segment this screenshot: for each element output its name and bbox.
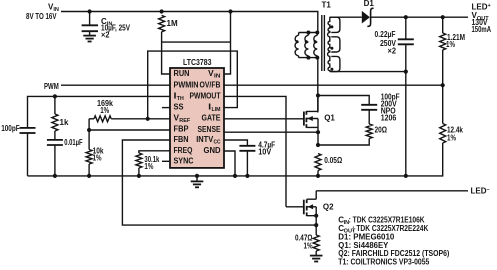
wire PWM to PWMIN [61, 84, 170, 86]
transistor Q2 [303, 200, 305, 215]
transformer T1 primary phase dots [296, 40, 299, 43]
wire ground rail [28, 147, 443, 176]
wire 1M to RUN [162, 32, 170, 74]
wire RUN/VIN link [162, 41, 231, 43]
svg-text:×2: ×2 [388, 46, 397, 55]
resistor R 10k [88, 130, 90, 150]
svg-text:20Ω: 20Ω [375, 125, 388, 134]
svg-text:1M: 1M [167, 19, 178, 28]
svg-text:10V: 10V [258, 148, 272, 157]
svg-text:IN: IN [214, 74, 221, 80]
svg-text:0.01µF: 0.01µF [64, 138, 82, 147]
svg-text:1%: 1% [100, 106, 109, 115]
wire SS stub [162, 107, 170, 109]
resistor R 0.05Ω [315, 154, 321, 171]
resistor R 1M [159, 15, 165, 31]
wire GATE to Q1 [224, 118, 304, 120]
wire FBN to Q2 source sense [122, 140, 316, 225]
svg-text:D1: D1 [364, 0, 375, 8]
svg-text:FREQ: FREQ [174, 146, 193, 155]
svg-text:100pF: 100pF [1, 124, 20, 133]
svg-text:1206: 1206 [381, 113, 397, 122]
svg-text:SS: SS [174, 103, 185, 112]
IC U1 LTC3783 [170, 68, 224, 168]
svg-text:1%: 1% [93, 153, 102, 162]
wire FREQ [139, 151, 170, 153]
node VOUT junction COUT [404, 15, 408, 19]
resistor R 1k [54, 96, 56, 114]
svg-text:INTV: INTV [196, 135, 214, 144]
wire VIN rail to VIN pin [224, 12, 231, 75]
svg-text:1%: 1% [446, 40, 455, 49]
capacitor CIN [89, 12, 91, 26]
capacitor 0.01µF [54, 131, 56, 140]
node junction VIN-1M [160, 9, 164, 13]
svg-text:TH: TH [177, 96, 184, 102]
svg-text:1%: 1% [304, 241, 313, 250]
wire VIN top rail [61, 12, 318, 33]
svg-text:FBP: FBP [174, 125, 190, 134]
svg-text:150mA: 150mA [472, 25, 492, 34]
node Q1 drain junction [316, 93, 320, 97]
wire 169k to VREF [111, 118, 170, 120]
ground 0.47Ω [310, 255, 323, 257]
svg-text:GND: GND [204, 146, 221, 155]
transformer T1 primary winding 1 [295, 35, 299, 56]
svg-text:LIM: LIM [212, 107, 221, 113]
wire GND pin [224, 151, 235, 176]
svg-text:CC: CC [214, 140, 221, 146]
resistor R 12.4k [440, 124, 446, 144]
svg-text:FBN: FBN [174, 135, 189, 144]
wire primary bottom to Q1 drain [317, 58, 319, 113]
svg-text:OV/FB: OV/FB [200, 80, 221, 89]
transformer T1 primary winding 2 [307, 33, 309, 36]
svg-text:PWM: PWM [44, 82, 59, 91]
transformer T1 secondary winding chord [328, 17, 330, 71]
svg-text:T1: T1 [322, 1, 332, 10]
node Q2 source junction [314, 223, 318, 227]
ground CIN [83, 35, 96, 37]
svg-text:T1: COILTRONICS VP3-0055: T1: COILTRONICS VP3-0055 [338, 258, 429, 267]
transistor Q1 [303, 112, 305, 126]
ground symbol under IC [196, 176, 198, 181]
capacitor 100pF snubber [361, 104, 377, 106]
wire secondary top to D1 [330, 16, 362, 18]
resistor R 20Ω snubber [366, 124, 372, 139]
wire D1 cathode to output [371, 16, 468, 18]
svg-text:GATE: GATE [202, 114, 222, 123]
wire FBP [89, 119, 170, 130]
svg-text:×2: ×2 [101, 31, 110, 40]
wire VREF-ILIM loop [148, 51, 238, 119]
node junction VIN-pin drop [228, 9, 232, 13]
svg-text:0.22µF: 0.22µF [375, 30, 396, 39]
svg-text:Q1: Q1 [324, 114, 335, 123]
wire snubber top [318, 96, 369, 105]
wire secondary bottom to COUT node [330, 71, 406, 73]
svg-text:SENSE: SENSE [198, 125, 222, 134]
transformer T1 primary winding 3 [316, 33, 318, 36]
capacitor COUT 0.22µF [405, 17, 407, 39]
resistor R 1.21M [442, 17, 444, 33]
svg-text:REF: REF [179, 118, 191, 124]
svg-text:RUN: RUN [174, 69, 190, 78]
wire SYNC stub [162, 160, 170, 162]
wire LED- [316, 190, 468, 192]
svg-text:0.05Ω: 0.05Ω [324, 156, 342, 165]
resistor R 0.47Ω [315, 225, 317, 235]
svg-text:PWMOUT: PWMOUT [190, 91, 221, 100]
svg-text:LTC3783: LTC3783 [183, 58, 212, 67]
transformer T1 primary rails [299, 33, 318, 58]
resistor R 30.1k [136, 153, 142, 168]
transformer T1 secondary winding loops [330, 17, 340, 32]
capacitor 4.7µF [239, 145, 255, 147]
wire SENSE to Q1 source [224, 131, 318, 133]
transformer T1 core [322, 15, 325, 71]
wire OV/FB to divider [224, 84, 443, 86]
svg-text:Q2: Q2 [323, 203, 334, 212]
wire ITH compensation [28, 96, 171, 127]
wire PWMOUT to Q2 gate [224, 96, 304, 206]
svg-text:1%: 1% [144, 162, 153, 171]
svg-text:SYNC: SYNC [174, 156, 194, 165]
svg-text:PWMIN: PWMIN [174, 80, 199, 89]
svg-text:1%: 1% [447, 133, 456, 142]
wire INTVCC [224, 140, 247, 146]
parts list [338, 216, 449, 267]
transformer T1 secondary phase dots [330, 25, 333, 28]
svg-text:1k: 1k [60, 118, 69, 127]
capacitor 100pF (ITH) [20, 127, 36, 129]
svg-text:8V TO 16V: 8V TO 16V [26, 12, 57, 21]
node junction VIN-CIN [88, 9, 92, 13]
resistor R 169k [89, 118, 94, 120]
